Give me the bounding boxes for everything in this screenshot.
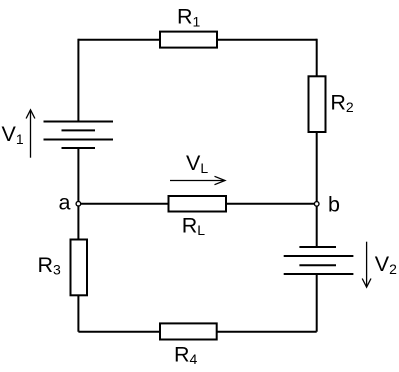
V2 current arrow (down) (362, 242, 371, 288)
resistor R2 (309, 76, 326, 132)
resistor RL (169, 196, 227, 212)
wire right rail upper (top corner through R2 to node b and V2 top) (316, 39, 318, 247)
wire bottom (bottom-left corner through R4 to bottom-right corner) (78, 331, 316, 333)
node a (76, 201, 81, 206)
wire right rail lower (V2 bottom plate to bottom corner) (316, 274, 318, 332)
VL arrow (right) (170, 176, 225, 184)
svg-text:b: b (328, 193, 340, 217)
resistor R4 (160, 323, 217, 339)
battery V1 (44, 122, 114, 149)
wire top (node above V1 to node above R2) (78, 39, 316, 41)
V1 current arrow (up) (26, 110, 35, 158)
wire left rail upper (top corner to V1 top plate) (77, 39, 79, 122)
resistor R3 (71, 240, 88, 296)
wire left rail lower (V1 bottom plate through node a and R3 to bottom corner) (77, 148, 79, 332)
wire middle (node a to node b through RL) (78, 203, 316, 205)
battery V2 (284, 247, 354, 274)
node b (314, 202, 319, 207)
svg-text:a: a (59, 190, 71, 214)
resistor R1 (160, 32, 217, 48)
